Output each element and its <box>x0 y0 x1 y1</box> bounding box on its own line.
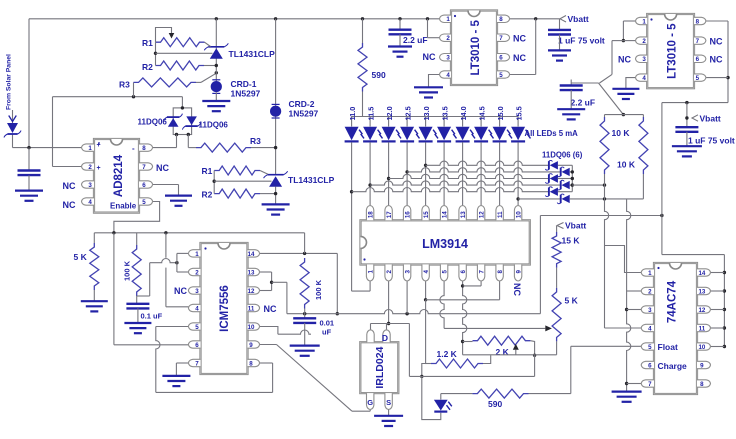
svg-text:3: 3 <box>88 182 92 189</box>
svg-text:6: 6 <box>195 342 199 349</box>
svg-text:8: 8 <box>700 381 704 388</box>
svg-text:NC: NC <box>423 52 436 62</box>
svg-text:16: 16 <box>404 211 411 218</box>
svg-text:5 K: 5 K <box>565 296 579 306</box>
svg-text:3: 3 <box>195 288 199 295</box>
svg-text:1N5297: 1N5297 <box>289 109 319 119</box>
svg-text:Enable: Enable <box>110 202 137 211</box>
svg-text:R3: R3 <box>250 136 261 146</box>
svg-text:10 K: 10 K <box>612 128 631 138</box>
svg-text:74AC74: 74AC74 <box>667 280 679 323</box>
svg-text:7: 7 <box>478 270 485 274</box>
svg-text:4: 4 <box>648 325 652 332</box>
svg-text:NC: NC <box>63 181 76 191</box>
svg-text:2 K: 2 K <box>496 347 510 357</box>
svg-text:2: 2 <box>88 164 92 171</box>
svg-text:8: 8 <box>142 145 146 152</box>
svg-text:1N5297: 1N5297 <box>231 89 261 99</box>
svg-text:3: 3 <box>642 56 646 63</box>
svg-text:S: S <box>386 398 391 407</box>
svg-text:12: 12 <box>698 307 705 314</box>
svg-text:NC: NC <box>512 283 522 296</box>
svg-text:R2: R2 <box>202 190 213 200</box>
svg-text:NC: NC <box>174 286 187 296</box>
svg-text:ICM7556: ICM7556 <box>219 285 231 332</box>
svg-text:R2: R2 <box>142 62 153 72</box>
svg-text:12: 12 <box>248 288 255 295</box>
svg-text:NC: NC <box>156 163 169 173</box>
svg-text:2.2 uF: 2.2 uF <box>403 35 428 45</box>
svg-text:13.5: 13.5 <box>441 106 450 120</box>
svg-text:15.5: 15.5 <box>515 106 524 120</box>
svg-text:8: 8 <box>497 270 504 274</box>
svg-text:-: - <box>132 144 135 153</box>
svg-text:15.0: 15.0 <box>496 106 505 120</box>
svg-text:1 uF 75 volt: 1 uF 75 volt <box>558 36 605 46</box>
svg-text:11.0: 11.0 <box>348 107 357 121</box>
svg-text:9: 9 <box>700 362 704 369</box>
svg-text:4: 4 <box>446 72 450 79</box>
svg-text:0.01: 0.01 <box>320 319 335 328</box>
svg-text:11: 11 <box>699 325 706 332</box>
svg-text:1: 1 <box>446 16 450 23</box>
svg-text:7: 7 <box>648 381 652 388</box>
svg-text:1: 1 <box>367 270 374 274</box>
svg-text:6: 6 <box>696 56 700 63</box>
svg-text:5: 5 <box>499 72 503 79</box>
svg-text:10: 10 <box>515 211 522 218</box>
svg-text:8: 8 <box>696 18 700 25</box>
svg-text:CRD-2: CRD-2 <box>289 99 315 109</box>
svg-text:11: 11 <box>497 211 504 218</box>
svg-text:G: G <box>367 398 373 407</box>
svg-text:Charge: Charge <box>658 361 688 371</box>
svg-text:All LEDs 5 mA: All LEDs 5 mA <box>525 129 579 138</box>
svg-text:15: 15 <box>423 211 430 218</box>
svg-text:6: 6 <box>499 55 503 62</box>
svg-text:Vbatt: Vbatt <box>700 113 721 123</box>
svg-text:4: 4 <box>195 305 199 312</box>
svg-text:5: 5 <box>441 270 448 274</box>
svg-text:Vbatt: Vbatt <box>568 14 589 24</box>
svg-text:4: 4 <box>423 270 430 274</box>
svg-text:18: 18 <box>367 211 374 218</box>
svg-text:1: 1 <box>195 251 199 258</box>
svg-text:8: 8 <box>499 16 503 23</box>
svg-text:14: 14 <box>441 211 448 218</box>
svg-text:NC: NC <box>264 304 277 314</box>
svg-text:TL1431CLP: TL1431CLP <box>288 175 335 185</box>
svg-text:12: 12 <box>478 211 485 218</box>
svg-text:5: 5 <box>195 324 199 331</box>
svg-text:13: 13 <box>698 288 705 295</box>
svg-text:14: 14 <box>248 251 255 258</box>
svg-text:4: 4 <box>88 199 92 206</box>
svg-text:1: 1 <box>642 18 646 25</box>
svg-text:5: 5 <box>142 199 146 206</box>
svg-text:NC: NC <box>513 53 526 63</box>
svg-text:NC: NC <box>710 55 723 65</box>
svg-text:2: 2 <box>386 270 393 274</box>
svg-text:13.0: 13.0 <box>422 106 431 120</box>
svg-text:14: 14 <box>698 270 705 277</box>
svg-text:NC: NC <box>618 54 631 64</box>
svg-text:1: 1 <box>88 145 92 152</box>
svg-text:3: 3 <box>648 307 652 314</box>
svg-text:From Solar Panel: From Solar Panel <box>6 54 13 110</box>
svg-text:Vbatt: Vbatt <box>565 221 586 231</box>
svg-text:590: 590 <box>372 70 386 80</box>
svg-text:11: 11 <box>248 305 255 312</box>
svg-text:R1: R1 <box>202 166 213 176</box>
svg-text:LM3914: LM3914 <box>422 237 468 251</box>
svg-text:590: 590 <box>488 399 502 409</box>
svg-text:Float: Float <box>658 342 678 352</box>
svg-text:D: D <box>382 333 388 343</box>
svg-text:14.5: 14.5 <box>478 106 487 120</box>
svg-text:8: 8 <box>249 360 253 367</box>
svg-text:5 K: 5 K <box>74 252 88 262</box>
svg-text:7: 7 <box>499 35 503 42</box>
svg-text:LT3010 - 5: LT3010 - 5 <box>667 23 679 79</box>
svg-text:AD8214: AD8214 <box>113 154 125 197</box>
svg-text:9: 9 <box>249 342 253 349</box>
svg-text:10 K: 10 K <box>617 160 636 170</box>
svg-text:9: 9 <box>515 270 522 274</box>
svg-text:NC: NC <box>63 200 76 210</box>
svg-text:2: 2 <box>446 35 450 42</box>
svg-text:11.5: 11.5 <box>367 107 376 121</box>
svg-text:7: 7 <box>142 164 146 171</box>
svg-text:1 uF 75 volt: 1 uF 75 volt <box>688 136 735 146</box>
svg-text:6: 6 <box>142 182 146 189</box>
svg-text:2: 2 <box>648 288 652 295</box>
svg-text:R3: R3 <box>119 80 130 90</box>
svg-text:R1: R1 <box>142 38 153 48</box>
svg-text:1: 1 <box>648 270 652 277</box>
svg-text:100 K: 100 K <box>314 279 323 300</box>
svg-text:7: 7 <box>195 360 199 367</box>
svg-text:17: 17 <box>386 211 393 218</box>
svg-text:2.2 uF: 2.2 uF <box>571 98 596 108</box>
svg-text:10: 10 <box>248 324 255 331</box>
svg-text:1.2 K: 1.2 K <box>437 349 458 359</box>
svg-text:5: 5 <box>648 344 652 351</box>
svg-text:0.1 uF: 0.1 uF <box>141 312 163 321</box>
svg-text:11DQ06: 11DQ06 <box>199 121 229 130</box>
svg-text:6: 6 <box>648 362 652 369</box>
svg-text:IRLD024: IRLD024 <box>374 346 386 388</box>
svg-text:5: 5 <box>696 75 700 82</box>
svg-text:NC: NC <box>513 34 526 44</box>
svg-text:3: 3 <box>404 270 411 274</box>
svg-text:12.0: 12.0 <box>385 106 394 120</box>
svg-text:CRD-1: CRD-1 <box>231 79 257 89</box>
svg-text:2: 2 <box>642 38 646 45</box>
svg-text:11DQ06: 11DQ06 <box>138 118 168 127</box>
svg-text:TL1431CLP: TL1431CLP <box>229 49 276 59</box>
svg-text:10: 10 <box>698 344 705 351</box>
svg-text:+: + <box>97 165 101 172</box>
svg-text:14.0: 14.0 <box>459 106 468 120</box>
svg-text:6: 6 <box>460 270 467 274</box>
svg-text:12.5: 12.5 <box>404 106 413 120</box>
svg-text:11DQ06 (6): 11DQ06 (6) <box>542 151 583 160</box>
svg-text:15 K: 15 K <box>562 236 581 246</box>
svg-text:uF: uF <box>322 328 332 337</box>
svg-text:7: 7 <box>696 38 700 45</box>
svg-text:4: 4 <box>642 75 646 82</box>
svg-text:13: 13 <box>460 211 467 218</box>
svg-text:3: 3 <box>446 55 450 62</box>
svg-text:100 K: 100 K <box>123 260 132 281</box>
svg-text:LT3010 - 5: LT3010 - 5 <box>470 20 482 76</box>
svg-text:13: 13 <box>248 269 255 276</box>
svg-text:2: 2 <box>195 269 199 276</box>
svg-text:NC: NC <box>710 37 723 47</box>
